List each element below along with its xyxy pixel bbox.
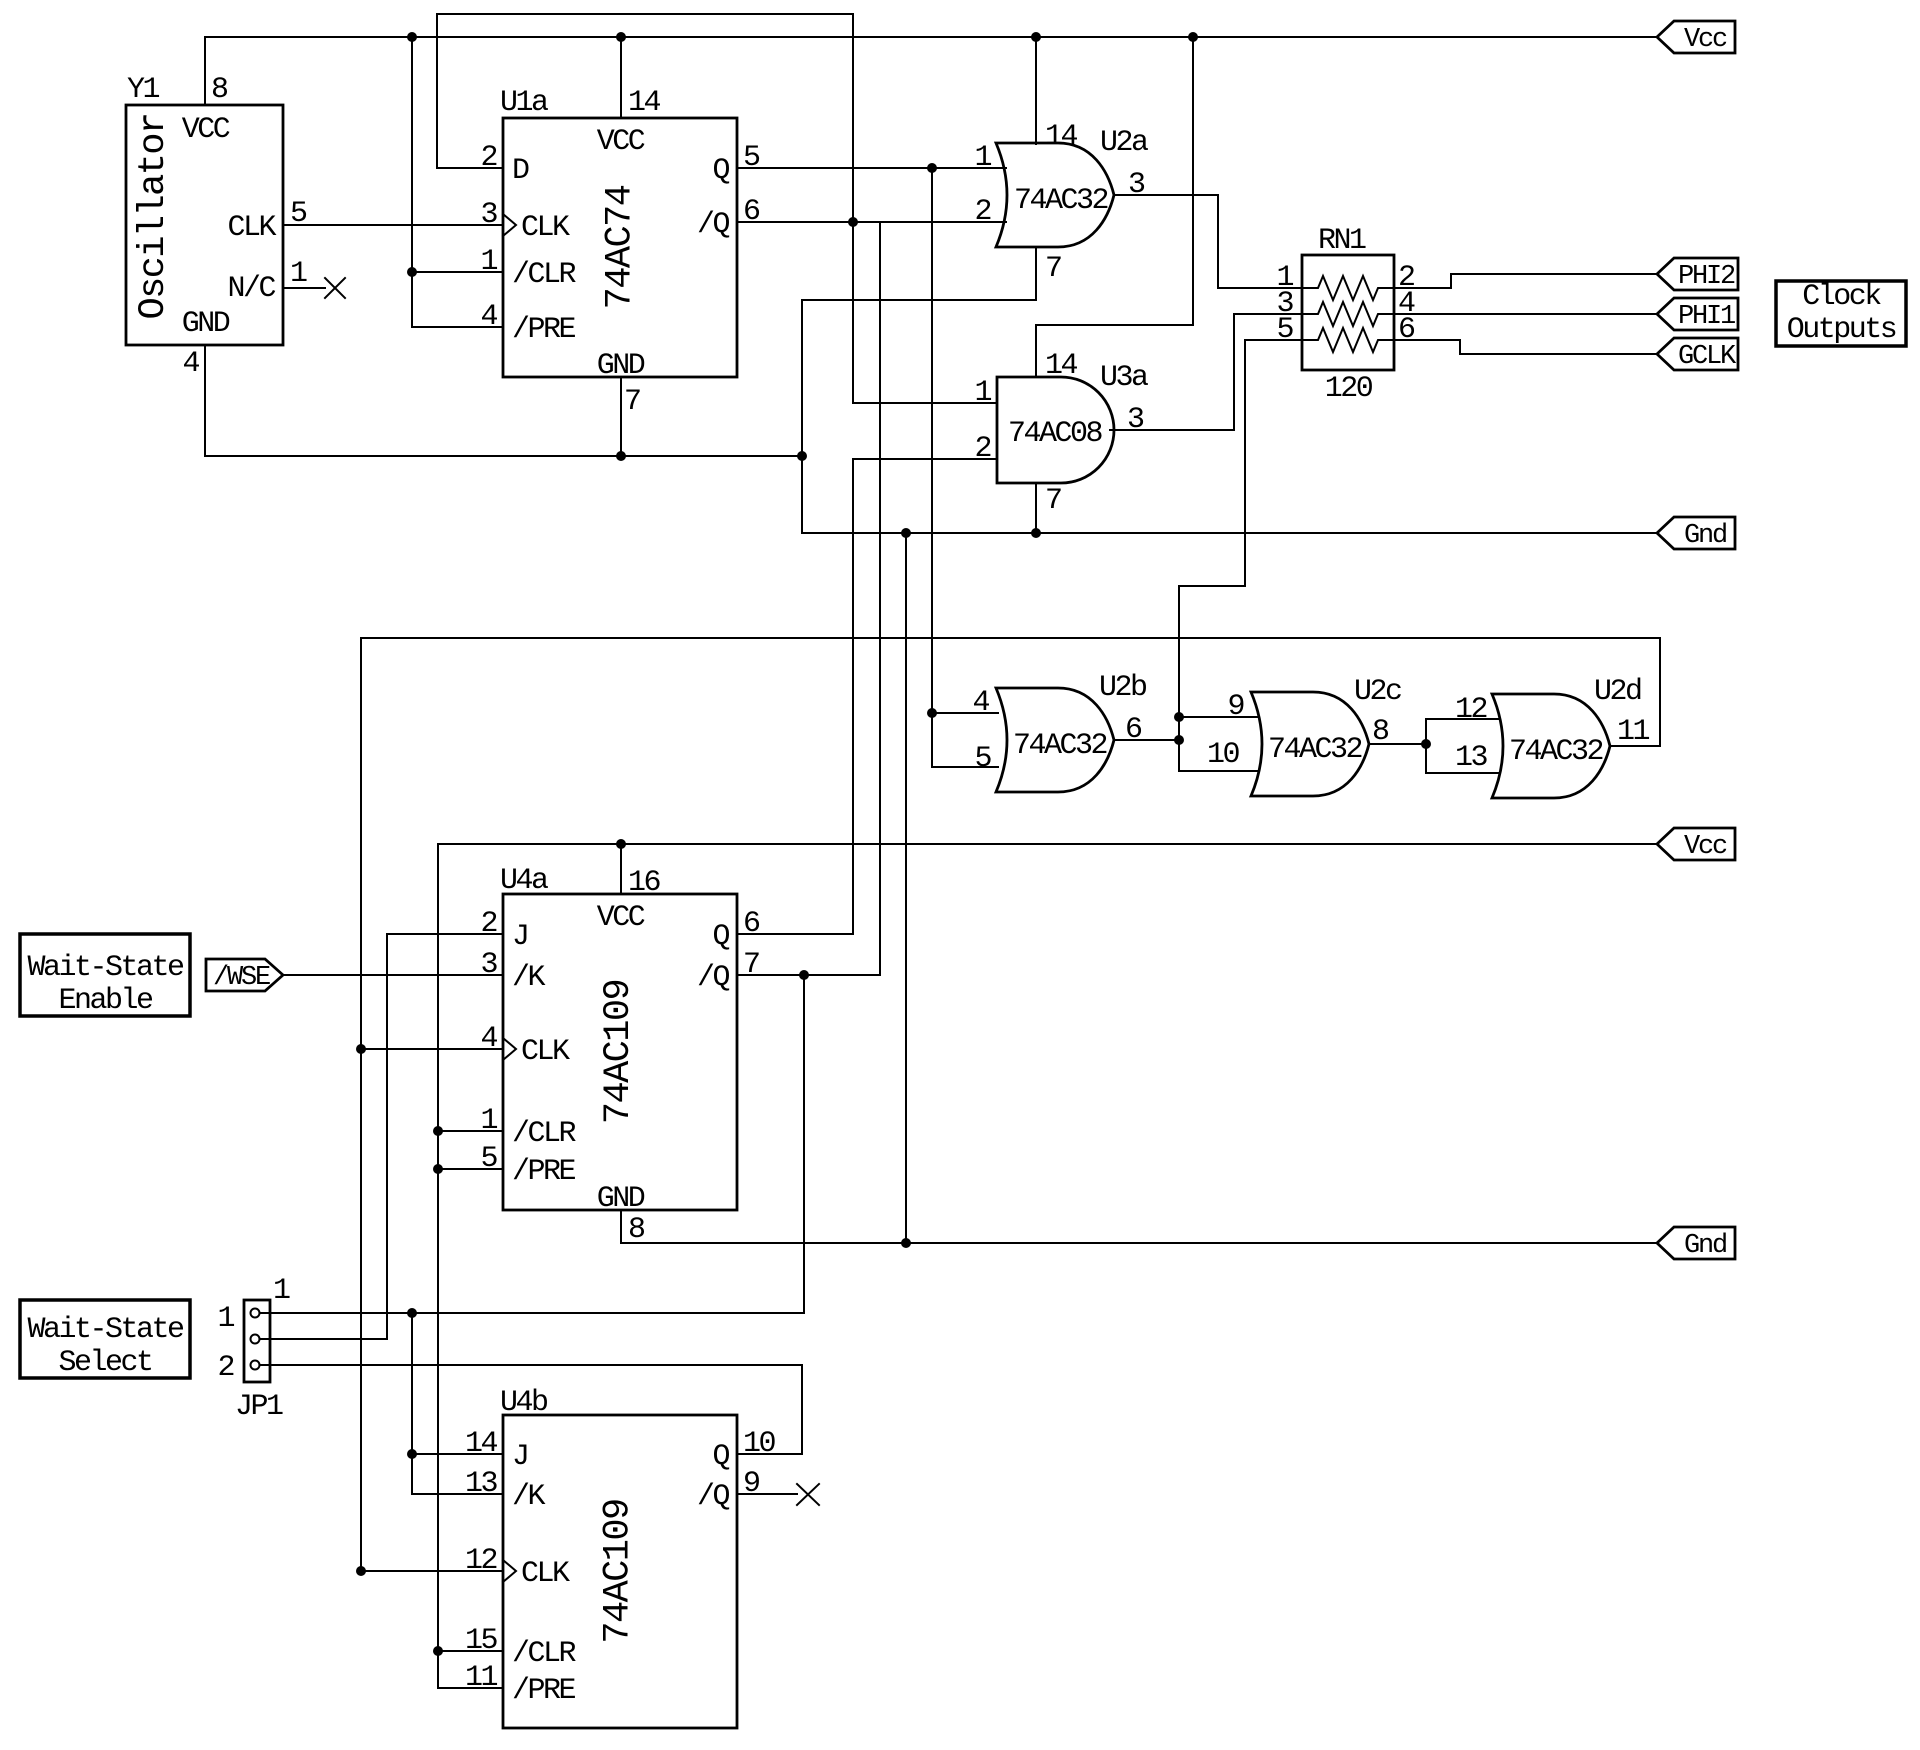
svg-text:9: 9: [1227, 690, 1243, 724]
flip-flop U4a 74AC109: [480, 864, 760, 1247]
resistor RN1 element 1-2: [1302, 276, 1394, 300]
svg-text:1: 1: [480, 1104, 497, 1138]
svg-text:6: 6: [1125, 713, 1142, 747]
wire Y1 CLK to U1a CLK: [283, 224, 503, 226]
wire RN1 pin 4 to PHI1: [1394, 313, 1657, 315]
svg-text:/PRE: /PRE: [512, 313, 576, 347]
junction U2c pin 9: [1174, 712, 1184, 722]
svg-text:7: 7: [1045, 484, 1061, 518]
svg-text:U4b: U4b: [500, 1386, 547, 1420]
net flag GCLK: [1657, 338, 1738, 372]
svg-text:/PRE: /PRE: [512, 1155, 576, 1189]
wire U3a output pin 3 to RN1 pin 3: [1110, 314, 1302, 430]
svg-text:GCLK: GCLK: [1678, 342, 1737, 372]
wire RN1 pin 2 to PHI2: [1394, 274, 1657, 288]
wire U4b /Q pin 9 stub: [737, 1493, 797, 1495]
wire U2a pin 14 Vcc stub: [1035, 37, 1037, 144]
svg-text:13: 13: [1455, 741, 1488, 775]
svg-text:74AC32: 74AC32: [1014, 184, 1108, 218]
wire U2d output pin 11 loop back to U4a and U4b clocks: [361, 638, 1660, 1571]
note box Wait-State Select: [20, 1300, 190, 1380]
svg-text:1: 1: [273, 1274, 290, 1308]
svg-text:VCC: VCC: [597, 901, 645, 935]
wire U2d input tie 12-13: [1426, 719, 1500, 773]
svg-text:13: 13: [465, 1467, 498, 1501]
svg-text:4: 4: [972, 686, 989, 720]
flip-flop U4b 74AC109: [465, 1386, 776, 1728]
svg-text:74AC109: 74AC109: [598, 1499, 640, 1643]
svg-text:U4a: U4a: [500, 864, 548, 898]
junction /CLR: [407, 267, 417, 277]
svg-text:1: 1: [974, 141, 991, 175]
wire RN1 pin 5 feedback from U2c input node: [1179, 340, 1302, 771]
junction U4b /CLR: [433, 1646, 443, 1656]
svg-text:U2c: U2c: [1354, 675, 1401, 709]
svg-text:11: 11: [465, 1661, 498, 1695]
net flag PHI2: [1657, 258, 1738, 292]
wire U4b /CLR pin 15: [438, 1650, 503, 1652]
svg-text:74AC109: 74AC109: [598, 980, 640, 1124]
svg-text:Select: Select: [58, 1346, 151, 1380]
svg-text:14: 14: [1045, 349, 1078, 383]
junction U2b pin 4 tie: [927, 708, 937, 718]
svg-text:2: 2: [974, 195, 990, 229]
junction U4a /PRE: [433, 1164, 443, 1174]
junction Gnd rail at U3a pin 7: [1031, 528, 1041, 538]
svg-text:/CLR: /CLR: [512, 1117, 577, 1151]
svg-text:Vcc: Vcc: [1684, 832, 1727, 862]
wire Vcc lower rail to U4b /PRE chain: [438, 844, 1657, 1688]
svg-text:GND: GND: [182, 307, 230, 341]
svg-text:3: 3: [480, 198, 497, 232]
wire U1a /CLR: [412, 271, 503, 273]
wire U1a /Q to U2a pin 2: [737, 221, 1006, 223]
svg-text:CLK: CLK: [521, 1557, 570, 1591]
svg-text:CLK: CLK: [227, 211, 276, 245]
wire U2c output pin 8 to U2d inputs: [1369, 743, 1426, 745]
no-connect X on U4b pin 9: [797, 1484, 819, 1505]
svg-text:/K: /K: [512, 1480, 546, 1514]
junction U2b output node: [1174, 735, 1184, 745]
svg-text:Gnd: Gnd: [1684, 1231, 1726, 1261]
svg-text:JP1: JP1: [235, 1390, 283, 1424]
net flag /WSE: [206, 959, 283, 993]
junction U1a pin 7: [616, 451, 626, 461]
svg-text:1: 1: [974, 376, 991, 410]
svg-text:PHI1: PHI1: [1678, 302, 1735, 332]
svg-text:U2b: U2b: [1099, 671, 1146, 705]
or-gate U2b 74AC32: [972, 671, 1146, 792]
svg-text:D: D: [512, 154, 529, 188]
junction U2d input node: [1421, 739, 1431, 749]
wire U4a J pin 2 to JP1 center pin: [260, 934, 503, 1339]
wire JP1 pin 2 to U4b Q pin 10: [260, 1365, 802, 1454]
svg-text:5: 5: [974, 742, 991, 776]
wire U3a pin 14 to Vcc rail: [1036, 37, 1193, 377]
power flag Gnd upper: [1657, 517, 1735, 551]
svg-text:2: 2: [974, 432, 990, 466]
svg-text:/CLR: /CLR: [512, 258, 577, 292]
junction JP1 pin 1 branch to U4b: [407, 1308, 417, 1318]
junction Gnd lower rail riser: [901, 1238, 911, 1248]
flip-flop U1a 74AC74: [480, 86, 760, 419]
svg-text:7: 7: [624, 385, 640, 419]
svg-text:Gnd: Gnd: [1684, 521, 1726, 551]
svg-text:Vcc: Vcc: [1684, 25, 1727, 55]
svg-text:Clock: Clock: [1802, 280, 1881, 314]
resistor RN1 element 3-4: [1302, 302, 1394, 326]
wire U4a /PRE pin 5: [438, 1168, 503, 1170]
svg-text:Outputs: Outputs: [1787, 313, 1896, 347]
svg-text:Q: Q: [712, 920, 729, 954]
wire U1a pin 14 Vcc stub: [620, 37, 622, 118]
svg-text:74AC32: 74AC32: [1509, 735, 1603, 769]
svg-text:14: 14: [465, 1427, 498, 1461]
junction U4a /CLR: [433, 1126, 443, 1136]
svg-text:11: 11: [1617, 715, 1650, 749]
svg-text:1: 1: [217, 1302, 234, 1336]
svg-text:GND: GND: [597, 349, 645, 383]
power flag Gnd lower: [1657, 1227, 1735, 1261]
wire Y1 GND and U1a GND to ground: [205, 345, 802, 456]
svg-text:J: J: [512, 920, 528, 954]
wire JP1 pin 1 to U4a /Q node: [260, 975, 804, 1313]
svg-text:8: 8: [211, 73, 228, 107]
junction Q branch: [927, 163, 937, 173]
svg-text:CLK: CLK: [521, 1035, 570, 1069]
net flag PHI1: [1657, 298, 1738, 332]
svg-text:6: 6: [743, 907, 760, 941]
wire U3a pin 7 stub: [1035, 483, 1037, 533]
svg-text:4: 4: [480, 300, 497, 334]
wire U2a output pin 3 to RN1 pin 1: [1114, 195, 1302, 288]
wire RN1 pin 6 to GCLK: [1394, 340, 1657, 354]
svg-text:3: 3: [1128, 168, 1145, 202]
note box Clock Outputs: [1776, 280, 1906, 347]
svg-text:74AC74: 74AC74: [600, 185, 642, 309]
and-gate U3a 74AC08: [974, 349, 1148, 518]
svg-text:2: 2: [480, 141, 496, 175]
wire U1a /Q to D feedback loop and down to U3a pin 1: [437, 14, 997, 403]
resistor RN1 element 5-6: [1302, 328, 1394, 352]
wire U2b pin 4: [932, 712, 998, 714]
svg-text:5: 5: [1276, 313, 1293, 347]
no-connect X on Y1 pin 1: [325, 278, 345, 298]
svg-text:74AC32: 74AC32: [1268, 733, 1362, 767]
svg-text:14: 14: [628, 86, 661, 120]
svg-text:VCC: VCC: [597, 125, 645, 159]
svg-text:U3a: U3a: [1100, 361, 1148, 395]
wire U4a CLK pin 4: [361, 1048, 503, 1050]
svg-text:Enable: Enable: [58, 984, 153, 1018]
wire U2c pin 9: [1179, 716, 1259, 718]
svg-text:/WSE: /WSE: [213, 963, 270, 993]
wire U2a pin 7 to Gnd rail: [802, 247, 1657, 533]
or-gate U2a 74AC32: [974, 120, 1148, 286]
junction U4b CLK end: [356, 1566, 366, 1576]
wire JP1 pin 1 down to U4b J and /K: [412, 1313, 503, 1494]
svg-text:Q: Q: [712, 154, 729, 188]
svg-text:2: 2: [480, 907, 496, 941]
junction U4b J: [407, 1449, 417, 1459]
wire U4b J pin 14: [412, 1453, 503, 1455]
oscillator Y1 box: [126, 73, 307, 381]
svg-text:6: 6: [743, 195, 760, 229]
svg-text:16: 16: [628, 866, 661, 900]
svg-text:3: 3: [1127, 403, 1144, 437]
note box Wait-State Enable: [20, 934, 190, 1018]
svg-text:Wait-State: Wait-State: [27, 1313, 184, 1347]
svg-text:74AC08: 74AC08: [1008, 417, 1103, 451]
svg-text:1: 1: [480, 245, 497, 279]
svg-text:VCC: VCC: [182, 113, 230, 147]
wire U4a pin 16 stub: [620, 844, 622, 894]
svg-text:U2d: U2d: [1594, 675, 1641, 709]
wire U1a Q to U2a pin 1: [737, 167, 1006, 169]
svg-text:6: 6: [1398, 313, 1415, 347]
junction Gnd rail at 906: [901, 528, 911, 538]
svg-text:/CLR: /CLR: [512, 1637, 577, 1671]
svg-text:1: 1: [290, 257, 307, 291]
svg-text:2: 2: [217, 1351, 233, 1385]
svg-text:14: 14: [1045, 120, 1078, 154]
power flag Vcc lower: [1657, 828, 1735, 862]
or-gate U2c 74AC32: [1207, 675, 1401, 796]
svg-text:U1a: U1a: [500, 86, 548, 120]
svg-text:3: 3: [480, 948, 497, 982]
junction U4a /Q branch: [799, 970, 809, 980]
svg-text:9: 9: [743, 1467, 759, 1501]
wire Vcc to U1a /PRE chain: [412, 37, 503, 327]
power flag Vcc top: [1657, 21, 1735, 55]
junction U4a CLK tap: [356, 1044, 366, 1054]
wire Q branch down to U2b both inputs: [932, 168, 998, 767]
svg-text:/Q: /Q: [697, 961, 730, 995]
junction ground riser: [797, 451, 807, 461]
wire U4a GND pin 8 to Gnd rail: [621, 1210, 1657, 1243]
svg-text:10: 10: [743, 1427, 776, 1461]
or-gate U2d 74AC32: [1455, 675, 1650, 798]
svg-text:N/C: N/C: [227, 272, 275, 306]
svg-text:5: 5: [290, 197, 307, 231]
svg-text:Y1: Y1: [127, 73, 160, 107]
svg-text:4: 4: [480, 1022, 497, 1056]
svg-text:/Q: /Q: [697, 1480, 730, 1514]
svg-text:7: 7: [743, 948, 759, 982]
svg-text:120: 120: [1325, 372, 1373, 406]
svg-text:CLK: CLK: [521, 211, 570, 245]
junction /Q loop: [848, 217, 858, 227]
svg-text:10: 10: [1207, 738, 1240, 772]
svg-text:J: J: [512, 1440, 528, 1474]
svg-text:/Q: /Q: [697, 208, 730, 242]
svg-text:Wait-State: Wait-State: [27, 951, 184, 985]
wire Y1 N/C stub: [283, 287, 325, 289]
wire Vcc top rail with Y1 pin 8 drop: [205, 37, 1657, 105]
wire ground riser between rails: [905, 533, 907, 1243]
svg-text:8: 8: [628, 1213, 645, 1247]
wire U4a /Q up to U2a pin 2 column: [737, 222, 880, 975]
wire U1a pin 7 GND stub: [620, 377, 622, 456]
svg-text:12: 12: [1455, 693, 1487, 727]
svg-text:4: 4: [182, 347, 199, 381]
resistor network RN1: [1276, 224, 1415, 406]
svg-text:7: 7: [1045, 252, 1061, 286]
wire U4a /CLR pin 1: [438, 1130, 503, 1132]
svg-text:U2a: U2a: [1100, 126, 1148, 160]
wire U4a Q up to U3a pin 2: [737, 459, 997, 934]
svg-text:/K: /K: [512, 961, 546, 995]
svg-text:15: 15: [465, 1624, 498, 1658]
jumper JP1: [217, 1274, 290, 1424]
svg-text:Q: Q: [712, 1440, 729, 1474]
wire U2b output pin 6 to U2c: [1114, 739, 1179, 741]
svg-text:GND: GND: [597, 1182, 645, 1216]
junction Vcc lower rail U4a pin 16: [616, 839, 626, 849]
svg-text:RN1: RN1: [1318, 224, 1366, 258]
wire /WSE to U4a /K pin 3: [283, 974, 503, 976]
svg-text:PHI2: PHI2: [1678, 262, 1735, 292]
svg-text:5: 5: [480, 1142, 497, 1176]
svg-text:12: 12: [465, 1544, 497, 1578]
svg-text:/PRE: /PRE: [512, 1674, 576, 1708]
svg-text:Oscillator: Oscillator: [133, 113, 175, 319]
svg-text:74AC32: 74AC32: [1013, 729, 1107, 763]
svg-text:5: 5: [743, 141, 760, 175]
junction dots on Vcc top rail: [407, 32, 1198, 42]
